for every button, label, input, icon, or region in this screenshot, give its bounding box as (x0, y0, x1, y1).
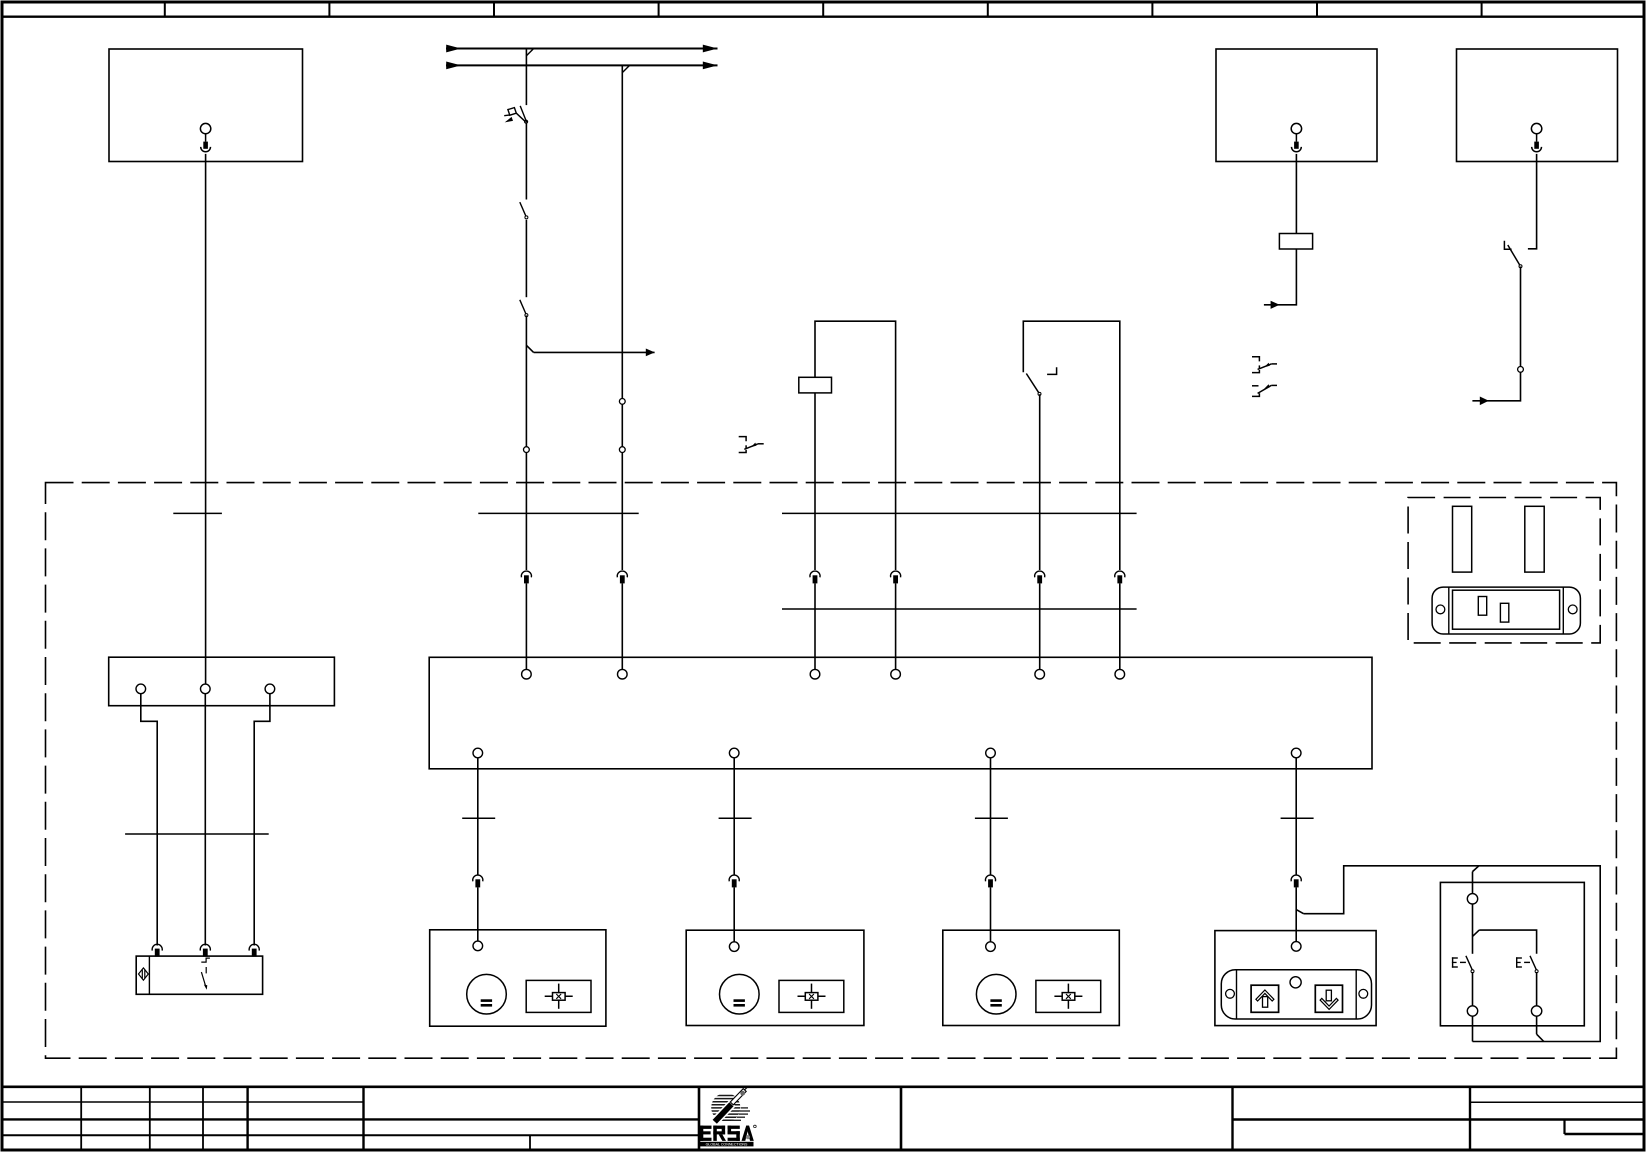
inlet contact 2 (1500, 603, 1508, 622)
top zone band (2, 16, 1644, 18)
aux contact B2 (1252, 357, 1277, 373)
enclosure dashed boundary (46, 483, 1617, 1059)
wire from K3 (1528, 154, 1537, 249)
box K2 (1216, 49, 1377, 162)
wire into unit 2 (733, 887, 735, 941)
E-switch 1 (1452, 956, 1474, 973)
wire to switch box (1304, 866, 1601, 1042)
connector X1 (200, 123, 210, 151)
board A1 (429, 657, 1372, 769)
wire to board (814, 583, 816, 669)
indicator circle (1290, 977, 1301, 988)
fuse F2 (1279, 234, 1312, 250)
connector pair (810, 571, 820, 583)
inlet body (1432, 587, 1580, 634)
wire (1472, 972, 1474, 1006)
E-switch 2 (1516, 956, 1538, 973)
wall tick (462, 817, 495, 819)
connector pair (473, 875, 483, 887)
wire into unit 3 (990, 887, 992, 941)
bus line L1 (446, 45, 718, 53)
thermal cutout contact (201, 958, 210, 990)
terminal wall tick (478, 512, 638, 514)
branch joint (1537, 1034, 1544, 1041)
connector pair (521, 571, 531, 583)
wire to board (621, 583, 623, 669)
switch box S5 (1440, 882, 1584, 1025)
switch contact S2 (520, 300, 528, 317)
wire (525, 220, 527, 297)
aux contact B1 (739, 437, 764, 453)
plug point circle (1518, 367, 1524, 373)
terminal wall tick 2 (782, 608, 1137, 610)
terminal strip X10 (109, 657, 335, 706)
wire elbow (1472, 372, 1520, 401)
drop wire 1 (477, 758, 479, 875)
connector pair (200, 944, 210, 956)
transformer symbol (139, 968, 149, 980)
wire to board (895, 583, 897, 669)
wire into stand (1295, 887, 1297, 941)
wire to board (1039, 583, 1041, 669)
wall tick (1281, 817, 1314, 819)
wire below S4 (1039, 394, 1041, 570)
wire (1536, 972, 1538, 1006)
wire phase 1 (525, 49, 527, 106)
unit 3 terminal (986, 942, 996, 952)
mains inlet dashed boundary (1408, 498, 1600, 643)
terminal (1531, 1006, 1541, 1016)
wire N to transformer (204, 694, 206, 946)
wire (621, 404, 623, 446)
cross wire to E2 (1479, 930, 1536, 954)
branch joint L2 (622, 65, 629, 72)
bus line L2 (446, 62, 718, 70)
wire phase 1 lower (525, 316, 527, 447)
wire below fuse (1264, 249, 1297, 305)
plug point circle (619, 447, 625, 453)
terminal wall tick (173, 512, 222, 514)
mounting holes (1226, 989, 1235, 998)
wire below S3 (1520, 267, 1522, 367)
wire into unit 1 (477, 887, 479, 941)
wire below F3 (814, 393, 816, 570)
fuse F3 (799, 377, 832, 393)
unit 3 box (943, 930, 1120, 1025)
board input terminals (522, 669, 532, 679)
wire to board (525, 583, 527, 669)
board output terminals (473, 748, 483, 758)
wire below breaker (525, 123, 527, 200)
connector pair (1291, 875, 1301, 887)
up button (1251, 985, 1279, 1012)
inlet cap lines (1448, 587, 1450, 634)
terminal (1467, 894, 1477, 904)
transformer T1 (136, 956, 262, 994)
plug point circle (619, 399, 625, 405)
terminal (1467, 1006, 1477, 1016)
drop wire 3 (990, 758, 992, 875)
connector X3 (1531, 123, 1541, 151)
unit 2 terminal (729, 942, 739, 952)
terminal wall tick (782, 512, 1137, 514)
connector pair (729, 875, 739, 887)
terminal wall tick (125, 833, 269, 835)
unit 1 box (430, 930, 606, 1026)
left chain top wire (1472, 872, 1474, 894)
svg-text:GLOBAL CONNECTIONS: GLOBAL CONNECTIONS (706, 1143, 748, 1147)
drop wire 4 (1295, 758, 1297, 875)
box K3 (1457, 49, 1618, 162)
unit 2 box (686, 930, 864, 1025)
ERSA logo (700, 1087, 757, 1147)
wire L to transformer (141, 694, 157, 946)
branch joint (1473, 930, 1480, 936)
connector pair (1035, 571, 1045, 583)
connector pair (1115, 571, 1125, 583)
wire (525, 453, 527, 571)
down button (1315, 985, 1342, 1012)
stand box (1215, 931, 1376, 1026)
drop wire 2 (733, 758, 735, 875)
switch S3 (1504, 241, 1522, 268)
connector X2 (1291, 123, 1301, 151)
unit 2 innards (720, 974, 844, 1014)
connector pair (891, 571, 901, 583)
switch contact S1 (520, 202, 528, 219)
loop wire pair 1 top (815, 321, 896, 570)
connector pair (249, 944, 259, 956)
faceplate cap lines (1236, 970, 1238, 1019)
stand terminal (1291, 942, 1301, 952)
plug point circle (524, 447, 530, 453)
loop wire pair 2 top (1023, 321, 1120, 570)
branch stub with arrow (526, 345, 654, 356)
wire PE to transformer (254, 694, 270, 946)
branch joint (1473, 866, 1479, 872)
unit 1 innards (467, 974, 591, 1014)
inlet inner frame (1453, 590, 1560, 629)
transformer divider (148, 956, 150, 994)
aux contact B3 (no top bracket) (1252, 384, 1277, 396)
inlet pin N (1525, 506, 1544, 572)
box K1 (109, 49, 303, 162)
strip terminals (136, 684, 146, 694)
off-sheet arrow (1480, 397, 1489, 406)
wall tick (975, 817, 1008, 819)
unit 1 terminal (473, 941, 483, 951)
connector pair (617, 571, 627, 583)
wire (621, 453, 623, 571)
wire to board (1119, 583, 1121, 669)
inlet screw holes (1436, 605, 1445, 614)
inlet pin L (1453, 506, 1472, 572)
wall tick (719, 817, 752, 819)
wire phase 2 (621, 65, 623, 398)
unit 3 innards (976, 974, 1100, 1014)
inlet contact 1 (1478, 597, 1486, 616)
wire (1472, 904, 1474, 954)
branch joint L1 (526, 49, 533, 56)
wire with joint to bottom (1536, 1016, 1538, 1034)
wire K1 down (205, 154, 207, 684)
branch joint (1296, 910, 1303, 914)
switch S4 (1026, 367, 1056, 395)
connector pair (152, 944, 162, 956)
connector pair (985, 875, 995, 887)
circuit breaker F1 (504, 106, 527, 123)
wire to bottom (1472, 1016, 1474, 1041)
off-sheet arrow (1271, 301, 1280, 309)
wire from K2 (1295, 154, 1297, 234)
stand faceplate (1221, 970, 1371, 1019)
